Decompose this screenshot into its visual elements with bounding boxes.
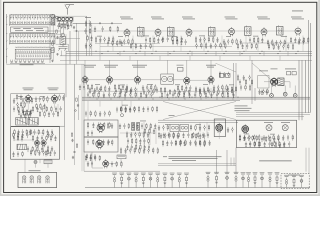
bus mb 1 [158,119,238,121]
wire left column down [83,64,85,171]
wire right edge to bottom [306,148,309,174]
socket box title [29,169,41,172]
notes vertical [231,158,234,166]
trimmer row baseline [10,62,45,64]
tube IF amp V9 [134,75,140,84]
cluster mid fill row3 [161,92,234,99]
trimmer row ticks [11,60,44,62]
cluster mid V7-V8 [96,85,110,92]
cluster under V6 [290,37,309,44]
cluster ps fill F [87,139,110,146]
accessory box label [288,174,300,177]
cluster bl r2 [13,135,23,142]
cluster bl r5 [47,145,53,152]
value label 22 [270,133,275,136]
wire to socket box [25,159,48,172]
wire link combs to chain [55,16,87,38]
wire audio tail [92,152,121,168]
br box outline [237,120,297,148]
coil bank L2 row part 4 [10,40,54,43]
tube avc amp V6 [295,27,301,36]
wire ps wiring [120,122,156,146]
mid chain label 2 [104,65,118,68]
socket pair box 2 [180,125,189,132]
jack group 1 [206,172,211,188]
left-mid block outline [11,94,65,127]
tuning gang condenser [59,45,68,51]
bus mid 3 [82,100,240,102]
mb wiring [200,122,219,139]
wire mid drops [85,88,225,97]
wire coil to chain [45,30,61,32]
tube label 1st IF amp V2 [151,17,164,20]
af box2 outline [84,137,118,152]
cluster mid right [227,86,237,93]
mid chain label 3 [132,65,147,68]
IF transformer T4 3rd IF transformer [209,26,216,37]
coil can K2 [28,118,38,126]
band switch S1 label [14,28,45,31]
coil bank L1 row part 1 [10,13,55,16]
tube audio out V19 [103,159,109,168]
padder capacitor C4 [51,48,54,53]
cluster lm fill B [32,106,61,113]
coil bank L1 row part 5 [10,24,56,26]
cluster audio fill [85,155,122,168]
resistor R1 [56,30,57,33]
wire top chain grid line [74,30,296,32]
cluster mid under V11 [213,84,227,91]
terminal strip boxes [285,69,296,75]
tone box [117,155,126,159]
output stage box [258,76,269,89]
mb cluster r4 [195,140,205,147]
value label 7 [253,35,258,38]
wire chain sub-bus 3 [240,42,308,44]
cluster ps fill C [119,123,156,130]
lm right column parts [75,95,79,120]
capacitor C3 [56,36,58,39]
tube converter V13 [25,94,31,103]
value label 13 [203,83,208,86]
value label 12 [175,83,180,86]
discriminator transformer T7 [161,74,174,84]
cluster lm fill D [13,98,33,104]
tube bfo V15 [34,139,39,147]
br cluster r3 [245,141,260,148]
tube 2nd IF amp V3 [186,28,192,37]
cluster bl r3 [47,132,53,138]
cluster V3-V4 [195,36,218,43]
terminal boxes mid right [220,74,231,78]
value label 9 [95,83,100,86]
wire gang section verticals [62,23,79,64]
cluster br fill A [239,134,293,141]
cluster output left parts [237,74,252,85]
pilot resistor [121,114,124,117]
cluster mid under V7 [79,84,93,91]
value label 14 [229,84,234,87]
br cluster r2 [261,136,279,143]
phono label [169,114,175,117]
antenna cluster parts [58,21,72,28]
jack group 4 [234,172,239,188]
tube bfo V16 [41,139,46,147]
oscillator coil bank L3 scallop [15,46,50,49]
socket box outline [18,173,57,188]
value label 3 [143,35,149,38]
cluster chain grid row [94,26,119,33]
model number label [292,10,303,13]
coil bank L1 row part 3 [10,16,54,19]
bottom-left block outline [11,127,60,160]
top chain left column parts [85,20,92,48]
tube converter V1 [124,28,130,37]
socket S4 [46,176,50,184]
cluster chain fill F [268,43,293,50]
wire trunk C [74,64,76,120]
cluster mid right parts [240,84,251,91]
mb cluster r3 [162,140,185,147]
padder capacitor C1 [51,19,54,25]
output misc parts [258,89,268,95]
dial lamp group 9 [170,173,175,188]
dial lamp group 5 [141,173,146,188]
cluster lm lower [18,109,32,120]
bus jumpers top [100,51,288,56]
tube label converter V1 [120,17,133,20]
wire bl wiring [14,133,44,152]
wire chain sub-bus 1 [95,43,160,45]
cluster mid fill C [143,89,154,95]
output stage label [259,69,278,72]
value label 18 [140,120,146,123]
switch SW2 [34,160,37,163]
wire notes lines [158,164,236,166]
wire mid right verticals [234,63,237,97]
coil bank L1 row part 4 [10,21,54,24]
terminal group 6 [275,172,280,187]
ps cluster r1 [126,131,149,138]
value label 21 [244,133,249,136]
wire antenna feed line [73,23,122,24]
dashed accessory box [281,174,309,189]
dial lamp group 8 [163,173,168,188]
wire output wiring [264,82,295,94]
value label 2 [118,35,123,38]
bus line heater 2 [60,55,312,57]
cluster lm fill A [13,106,23,113]
wire diag right [216,63,237,72]
cluster chain fill G [298,39,304,45]
value label 4 [172,35,177,38]
cluster ps fill E [87,122,110,129]
coil bank L2 row part 1 [10,32,55,35]
mid chain label 1 [84,65,96,68]
speaker P2 [283,92,287,96]
tube 1st audio V11 [208,75,214,84]
cluster under V5 [267,39,285,46]
coil bank L1 row part 2 [10,15,54,20]
cluster under V1 [95,36,114,43]
value label 6 [226,35,231,38]
wire comb1 right [54,15,56,26]
dial lamp group 6 [148,173,153,188]
wire right edge verticals [299,20,311,120]
jack group 3 [225,172,230,188]
coil can K1 [16,118,27,126]
socket S1 [22,176,26,184]
cluster lm fill C [39,111,58,118]
tube 1st IF amp V2 [155,28,161,37]
mixer grid cap [73,26,77,32]
cluster ps fill G [120,147,158,154]
bus junction dots top [95,51,298,54]
IF transformer T3 2nd IF transformer [168,26,175,37]
value label 20 [196,123,201,126]
wire mid sub-bus [88,90,235,92]
tube label 2nd IF amp V3 [182,17,195,20]
rectifier box [214,119,225,137]
tube label 6SA7 [23,88,34,91]
br cluster r1 [239,135,257,142]
coil bank L2 row part 2 [10,34,54,39]
tube oscillator V7 [82,75,88,84]
cluster under V3 [172,39,186,46]
dial lamp group 11 [184,173,189,188]
cluster V2-V3 [145,37,163,44]
cluster bl fill D [27,146,43,153]
wire br horizontals [236,113,310,117]
top chain left parts [85,17,93,42]
coupling parts row [116,106,135,113]
cluster under V2 [119,38,133,45]
wire diag X1 [163,102,236,120]
bus junction dots mid [89,97,238,100]
resistor group right mid [219,71,229,78]
bus line heater 1 [66,53,312,55]
cluster lm left [16,94,25,108]
wire mid horizontal 64 [6,63,84,65]
wire chain sub-bus 2 [100,46,232,48]
oscillator coil bank L3 box [15,49,51,59]
wire trunk B [69,31,71,64]
cluster ps fill D [144,128,155,135]
cluster mid V9-T7 [156,87,166,94]
wire mid tube stems [85,60,211,77]
antenna [65,5,74,15]
cluster mid fill B [115,88,132,95]
socket pair box 1 [170,125,179,132]
speaker P3 [293,94,297,98]
accessory group 1 [284,175,289,188]
wire rectifier drops [217,148,237,173]
socket view A [264,122,273,131]
wire drops to power [82,64,131,171]
cluster br fill B [249,141,290,148]
cluster mid fill E [199,88,233,95]
cluster lm right [59,94,65,101]
cluster bl fill A [29,129,53,136]
cluster bl fill E [12,151,23,157]
cluster output under [261,89,268,95]
ground G2 [56,53,58,55]
value label 17 [122,104,128,107]
wire chain drops [100,36,303,52]
tube af V17 [97,123,104,133]
hatched part bl [17,144,27,150]
border frame [4,2,317,192]
wire left antenna bus [6,14,7,64]
af2 parts [107,140,113,146]
cluster mb fill A [158,125,169,131]
coil bank L2 row part 3 [10,35,54,38]
cluster mb fill B [190,124,209,131]
terminal group 2 [246,172,251,187]
cluster mid V8-V9 [126,86,136,93]
tube output V12 [271,77,278,87]
cluster bl fill C [32,135,56,142]
cluster chain fill C [162,36,183,43]
socket S3 [37,176,41,184]
wire comb2 right [54,34,56,45]
dial lamp group 1 [112,173,117,188]
cluster chain fill B [130,43,151,50]
value label 16 [40,95,45,98]
socket view B [281,122,290,131]
tube rectifier V20 [216,123,223,133]
cluster mid fill D [169,89,190,96]
ground G1 [51,60,53,62]
cluster mid under V9 [142,84,156,91]
cluster mb fill E [227,127,233,133]
value label 19 [165,123,170,126]
cluster mid under V10 [177,85,191,92]
wire antenna section drops [61,21,68,37]
mb cluster r1 [160,132,179,139]
terminal group 4 [260,172,265,187]
speaker P1 [270,94,274,98]
bl right parts [71,133,77,159]
br text lines [235,106,252,112]
wire coil block right vertical [50,15,53,64]
cluster mb fill D [175,139,211,146]
dial lamp group 10 [177,173,182,188]
IF transformer T2 1st IF transformer [138,26,145,37]
ps cluster r3 [126,144,149,151]
tube 3rd IF amp V4 [229,27,235,36]
antenna cluster dense [58,23,70,30]
tube label avc amp V6 [291,17,304,20]
tube mixer V8 [106,75,112,84]
wire lm wiring [14,99,58,114]
af box outline [84,120,118,137]
socket S2 [30,176,34,184]
hatched choke [23,111,31,115]
wire diag X2 [163,102,236,120]
bottom bus line [85,187,310,189]
coupling box mid [177,65,184,71]
cluster chain fill E [237,43,257,50]
wire mid chain link [88,79,208,81]
cluster ps fill B [85,110,110,117]
IF transformer T5 4th IF transformer [245,26,252,37]
antenna coupling cans [58,17,74,21]
value label 8 [281,35,287,38]
wire gang links [56,34,68,44]
cluster mid V10-V11 [195,86,208,93]
bus line B+ top [66,50,312,52]
value label 5 [199,35,205,38]
cluster mb fill C [158,132,209,139]
tube rf amp V14 [51,94,57,103]
value label 15 [18,95,23,98]
trimmer row label [20,63,34,66]
tube 2nd det V10 [184,76,190,85]
cluster under V4 [223,38,242,45]
terminal group 1 [241,172,246,187]
accessory group 3 [299,175,304,188]
cluster lm mid [35,96,48,110]
cluster chain fill D [196,42,226,49]
wire bus-to-avc jumpers [100,56,280,61]
cluster chain fill A [107,40,123,47]
IF transformer T6 detector transformer [277,25,284,36]
resistor R2 [52,42,53,45]
dial lamp group 2 [119,173,124,188]
jack group 2 [214,172,219,188]
tube af2 V18 [96,139,103,149]
trimmer row circles [11,61,43,63]
wire output feed vertical [252,60,255,104]
bus mid 2 [82,98,310,100]
bus mid 1 [82,96,310,98]
tube ballast V21 [242,124,249,134]
cluster bl fill B [13,132,28,139]
output transformer T8 [278,78,284,86]
cluster ps fill A [120,106,157,113]
br cluster r4 [271,141,285,148]
notes heading [163,155,167,158]
value label 1 [97,35,102,38]
oscillator coil bank L3 midline [15,53,51,55]
terminal group 5 [268,172,273,187]
wire antenna to chain [73,22,87,24]
cluster mid under V8 [114,84,128,91]
oscillator coil bank L3 ticks lower [17,55,50,58]
notes text [169,156,222,161]
wire comb1 left [9,15,11,26]
trimmer capacitor C2 [51,14,59,22]
tube label detector V5 [257,17,270,20]
ps cluster r2 [127,138,149,145]
wire trunk A [65,51,67,98]
cluster V4-V5 [249,37,263,44]
wire output feed diagonal [252,63,271,80]
choke bank [132,123,140,131]
accessory group 2 [292,175,297,188]
mid chain label 4 [206,65,216,68]
cluster bl r1 [14,129,32,136]
value label 10 [120,84,125,87]
resistor note text [259,159,292,162]
cluster mid fill row2 [87,92,152,99]
bus line AVC [60,59,312,61]
cluster bl fill F [45,150,55,157]
wire top chain left column [87,16,92,56]
tube label 6SK7 [48,88,59,91]
dial lamp group 4 [134,173,139,188]
